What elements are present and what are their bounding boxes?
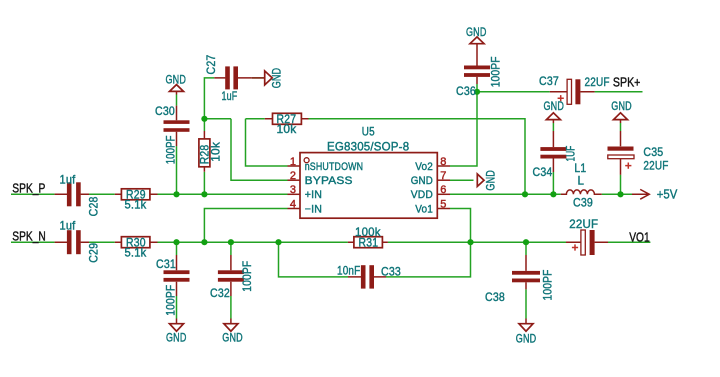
junction C30 on +IN row <box>173 191 179 197</box>
resistor R28 <box>199 131 223 172</box>
wire VDD row pin6 to L1 <box>450 193 561 195</box>
wire C27 right to GND <box>252 77 265 79</box>
pin 1 nSHUTDOWN <box>288 156 364 173</box>
svg-text:1: 1 <box>290 156 296 168</box>
wire R27 right to VDD row <box>309 119 526 195</box>
pin 6 VDD <box>411 184 450 201</box>
svg-text:C34: C34 <box>533 166 553 179</box>
svg-text:Vo1: Vo1 <box>415 203 433 215</box>
svg-text:5.1k: 5.1k <box>125 199 147 212</box>
svg-text:GND: GND <box>485 170 498 191</box>
svg-text:2: 2 <box>290 170 296 182</box>
svg-text:U5: U5 <box>362 125 375 138</box>
svg-text:C39: C39 <box>573 197 593 210</box>
svg-text:C31: C31 <box>156 258 176 271</box>
capacitor C29 <box>55 220 101 263</box>
wire R27 left <box>246 118 265 120</box>
svg-text:6: 6 <box>440 184 446 196</box>
pin 7 GND <box>411 170 450 187</box>
power +5V <box>632 186 678 201</box>
wire R29 to pin3 +IN <box>158 193 288 195</box>
capacitor C31 <box>156 255 190 316</box>
wire C29 to R30 <box>89 241 115 243</box>
resistor R30 <box>115 236 158 259</box>
wire C35 upper leg <box>620 123 622 131</box>
ground below C31 <box>166 319 187 345</box>
wire C36 node to C37 <box>477 91 550 93</box>
svg-text:C30: C30 <box>155 105 175 118</box>
ground below C32 <box>222 319 243 345</box>
svg-text:8: 8 <box>440 156 446 168</box>
capacitor C34 <box>533 120 578 179</box>
wire C32 bottom to GND <box>230 296 232 319</box>
junction C35 on VDD row <box>617 191 623 197</box>
capacitor C30 <box>155 105 190 164</box>
capacitor C28 <box>55 173 101 216</box>
ground right of C27 <box>252 68 284 89</box>
wire C34 upper leg <box>552 123 554 131</box>
svg-text:C38: C38 <box>485 291 505 304</box>
wire node to pin1 feed <box>246 119 288 166</box>
svg-text:BYPASS: BYPASS <box>305 175 353 187</box>
svg-text:GND: GND <box>411 175 433 187</box>
svg-text:GND: GND <box>271 68 284 89</box>
svg-text:SPK_N: SPK_N <box>12 229 46 244</box>
capacitor C38 <box>485 255 555 304</box>
svg-text:+5V: +5V <box>657 186 678 201</box>
svg-text:EG8305/SOP-8: EG8305/SOP-8 <box>327 141 409 154</box>
svg-text:C29: C29 <box>88 243 101 263</box>
wire output cap to VO1 label <box>608 241 650 243</box>
svg-text:C36: C36 <box>456 85 476 98</box>
resistor R31 <box>348 226 388 250</box>
svg-text:10k: 10k <box>210 142 223 162</box>
junction node C36/Vo2 <box>474 89 480 95</box>
junction C31 on SPK_N row <box>173 239 179 245</box>
svg-text:22UF: 22UF <box>585 76 610 89</box>
wire bypass node segment <box>204 118 231 120</box>
junction C34 on VDD row <box>550 191 556 197</box>
wire SPK_N row to C29 <box>11 241 55 243</box>
svg-text:GND: GND <box>222 331 243 344</box>
svg-text:4: 4 <box>290 198 296 210</box>
svg-text:3: 3 <box>290 184 296 196</box>
svg-text:1uf: 1uf <box>60 220 76 233</box>
ground above C34 <box>544 100 565 119</box>
svg-text:22UF: 22UF <box>569 218 598 231</box>
svg-text:VO1: VO1 <box>629 229 650 244</box>
svg-text:5.1k: 5.1k <box>125 247 147 260</box>
wire pin7 GND stub <box>450 179 474 181</box>
pin 2 BYPASS <box>288 170 353 187</box>
wire R30 to R31 <box>158 241 348 243</box>
wire C30 top to GND <box>176 95 178 106</box>
wire C31 bottom to GND <box>176 296 178 319</box>
wire node to pin2 feed <box>231 119 288 180</box>
junction C32 on SPK_N row <box>228 239 234 245</box>
wire node to R28 top <box>203 119 205 131</box>
wire C31 top <box>176 242 178 255</box>
svg-text:C32: C32 <box>210 287 230 300</box>
svg-text:C37: C37 <box>539 75 559 88</box>
svg-text:1uF: 1uF <box>222 90 238 103</box>
capacitor C35 (polarized 22UF) <box>608 120 669 175</box>
pin 3 +IN <box>288 184 323 201</box>
pin 8 Vo2 <box>415 156 450 173</box>
wire C35 lower leg <box>620 175 622 195</box>
svg-text:nSHUTDOWN: nSHUTDOWN <box>305 161 364 173</box>
pin 5 Vo1 <box>415 198 450 215</box>
wire SPK_N row to pin4 -IN feed <box>204 209 287 243</box>
svg-text:−IN: −IN <box>305 203 322 215</box>
wire L1 to +5V <box>602 193 632 195</box>
svg-text:GND: GND <box>611 100 632 113</box>
svg-text:SPK_P: SPK_P <box>12 181 45 196</box>
wire C30 bottom to +IN row <box>176 146 178 194</box>
resistor R29 <box>115 189 158 212</box>
wire C36 lower leg <box>476 84 478 92</box>
junction node BYPASS/C27/R28 <box>201 116 207 122</box>
wire R31 to output cap <box>388 241 566 243</box>
capacitor 22UF output (C39) <box>566 218 608 255</box>
svg-text:R31: R31 <box>359 236 379 249</box>
junction R28 on +IN row <box>201 191 207 197</box>
svg-text:L1: L1 <box>574 162 586 175</box>
ground right of pin 7 <box>477 170 497 191</box>
op-amp U5 EG8305/SOP-8 body <box>300 125 437 218</box>
ground below C38 <box>516 319 537 346</box>
wire pin8 Vo2 to C36 node <box>450 92 477 166</box>
svg-text:Vo2: Vo2 <box>415 161 433 173</box>
wire C34 lower leg <box>552 172 554 194</box>
junction Vo1/C33 on output row <box>467 239 473 245</box>
capacitor C37 (polarized 22UF) <box>539 75 610 104</box>
svg-text:C27: C27 <box>205 55 218 75</box>
svg-text:GND: GND <box>544 100 565 113</box>
wire C27 left leg <box>204 78 214 119</box>
svg-text:5: 5 <box>440 198 446 210</box>
ground above C30 <box>166 73 187 94</box>
wire C38 top <box>525 242 527 255</box>
resistor R27 <box>265 113 309 136</box>
svg-text:+IN: +IN <box>305 189 322 201</box>
svg-text:100PF: 100PF <box>490 56 503 87</box>
wire C32 top <box>230 242 232 255</box>
svg-text:10nF: 10nF <box>337 265 360 278</box>
svg-text:C28: C28 <box>88 196 101 216</box>
capacitor C33 <box>337 265 401 289</box>
svg-text:100PF: 100PF <box>164 135 177 164</box>
junction -IN feed on SPK_N row <box>201 239 207 245</box>
svg-text:C33: C33 <box>381 266 401 279</box>
svg-text:100PF: 100PF <box>164 285 177 316</box>
wire C33 left feed <box>279 242 349 277</box>
svg-text:C35: C35 <box>643 146 663 159</box>
capacitor C32 <box>210 255 254 300</box>
svg-text:L: L <box>578 175 585 188</box>
svg-text:GND: GND <box>466 26 487 39</box>
wire R28 bottom to +IN row <box>203 172 205 195</box>
svg-text:GND: GND <box>166 331 187 344</box>
pin 4 -IN <box>288 198 323 215</box>
svg-text:VDD: VDD <box>411 189 433 201</box>
svg-text:1uf: 1uf <box>60 173 76 186</box>
svg-text:7: 7 <box>440 170 446 182</box>
ground above C36 <box>466 26 487 44</box>
wire C33 right feed <box>386 242 471 277</box>
junction C33 feed on SPK_N row <box>275 239 281 245</box>
svg-text:1UF: 1UF <box>565 146 578 162</box>
capacitor C27 <box>205 55 252 103</box>
ground above C35 <box>611 100 632 119</box>
svg-text:100PF: 100PF <box>542 270 555 301</box>
svg-text:10k: 10k <box>277 123 297 136</box>
capacitor C36 <box>456 44 503 98</box>
svg-text:SPK+: SPK+ <box>613 74 641 89</box>
wire C38 bottom to GND <box>525 289 527 318</box>
svg-text:100PF: 100PF <box>241 261 254 292</box>
wire C28 to R29 <box>89 193 115 195</box>
wire SPK_P row to C28 <box>11 193 55 195</box>
wire pin5 Vo1 down to output row <box>450 209 471 243</box>
junction R27 on VDD row <box>522 191 528 197</box>
svg-text:22UF: 22UF <box>643 159 668 172</box>
inductor L1 <box>561 162 602 210</box>
svg-text:GND: GND <box>516 333 537 346</box>
junction C38 on output row <box>523 239 529 245</box>
svg-text:GND: GND <box>166 73 187 86</box>
wire C37 to SPK+ label <box>595 91 643 93</box>
